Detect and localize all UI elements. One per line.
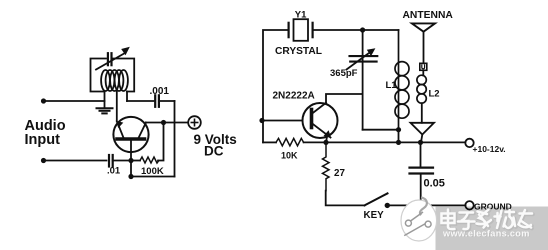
terminal +10-12v bbox=[465, 139, 473, 147]
wire link to L2 bbox=[422, 70, 424, 75]
node audio input bottom terminal bbox=[41, 158, 46, 163]
wire audio input top bbox=[44, 100, 105, 102]
svg-text:365pF: 365pF bbox=[330, 68, 358, 79]
wire 100K left link bbox=[131, 160, 140, 162]
crystal Y1 bbox=[289, 19, 313, 41]
node collector junction bbox=[161, 120, 166, 125]
wire tuning arrow bbox=[96, 53, 125, 70]
wire supply rail bbox=[326, 141, 465, 143]
capacitor .001 bbox=[155, 95, 159, 107]
node L1 bottom junction bbox=[396, 127, 401, 132]
watermark gray panel bbox=[436, 207, 548, 250]
capacitor 0.05 bbox=[410, 142, 434, 205]
svg-text:ANTENNA: ANTENNA bbox=[403, 10, 454, 21]
wire shield left drop to ground bbox=[104, 92, 106, 109]
svg-text:CRYSTAL: CRYSTAL bbox=[275, 46, 322, 57]
svg-text:10K: 10K bbox=[281, 151, 298, 161]
antenna bbox=[412, 23, 435, 63]
node base junction bbox=[128, 158, 133, 163]
resistor 100K bbox=[140, 157, 159, 163]
capacitor 365pF bbox=[350, 56, 378, 62]
node audio input top terminal bbox=[41, 98, 46, 103]
inductor L1 bbox=[395, 30, 409, 130]
switch KEY bbox=[365, 193, 390, 208]
node base lower junction bbox=[128, 174, 133, 179]
wire feedback bottom bbox=[131, 176, 175, 178]
wire triangle to rail bbox=[421, 135, 422, 143]
svg-text:.01: .01 bbox=[107, 166, 121, 177]
svg-text:+10-12v.: +10-12v. bbox=[473, 144, 506, 154]
wire collector Q2 riser bbox=[326, 94, 363, 103]
node base rail junction bbox=[259, 118, 264, 123]
resistor 27 bbox=[323, 142, 330, 190]
wire coil right end down bbox=[126, 92, 128, 102]
svg-text:2N2222A: 2N2222A bbox=[273, 91, 315, 102]
wire 365pF arrow bbox=[347, 52, 372, 70]
wire 365pF top lead bbox=[362, 30, 364, 130]
wire collector to supply bbox=[146, 122, 188, 124]
wire L2 to triangle bbox=[421, 103, 423, 123]
svg-text:0.05: 0.05 bbox=[424, 178, 445, 190]
svg-text:L2: L2 bbox=[429, 88, 440, 99]
svg-text:www.elecfans.com: www.elecfans.com bbox=[442, 229, 530, 239]
node 365pF top junction bbox=[360, 27, 365, 32]
svg-text:Input: Input bbox=[25, 132, 61, 148]
svg-text:L1: L1 bbox=[386, 80, 398, 91]
resistor 10K bbox=[276, 138, 304, 146]
wire .01 to base node bbox=[113, 160, 131, 162]
wire base stub bbox=[130, 161, 132, 177]
svg-text:Y1: Y1 bbox=[295, 9, 307, 20]
wire coil tap to transistor bbox=[116, 91, 118, 122]
wire 365pF bottom lead bbox=[363, 129, 399, 131]
terminal 9V plus bbox=[188, 116, 201, 129]
svg-text:.001: .001 bbox=[150, 86, 170, 97]
watermark logo circle bbox=[401, 197, 437, 241]
wire 27 to key bbox=[326, 191, 365, 206]
svg-text:100K: 100K bbox=[141, 166, 164, 177]
svg-text:27: 27 bbox=[334, 168, 345, 179]
terminal GROUND bbox=[465, 201, 473, 209]
wire feedback vertical bbox=[174, 101, 176, 177]
node antenna rail junction bbox=[418, 140, 423, 145]
ground bbox=[97, 108, 113, 113]
wire L1 bottom to rail bbox=[398, 130, 400, 143]
shield box T1 bbox=[91, 59, 135, 92]
capacitor variable tuning (plates on shield top) bbox=[108, 53, 112, 65]
wire crystal to L1 top bbox=[313, 29, 399, 31]
svg-text:KEY: KEY bbox=[364, 210, 385, 221]
node emitter rail junction bbox=[323, 140, 328, 145]
wire 100K right riser bbox=[158, 123, 164, 161]
wire key to ground terminal bbox=[387, 204, 465, 206]
capacitor .01 bbox=[109, 155, 113, 167]
node L1 rail junction bbox=[396, 140, 401, 145]
inductor L (coil in shield) bbox=[101, 70, 128, 91]
wire base Q2 bbox=[263, 120, 303, 122]
wire .001 to feedback drop bbox=[159, 100, 175, 102]
wire rail 10K to emitter bbox=[304, 141, 326, 143]
wire emitter to rail bbox=[326, 137, 327, 143]
wire rail left link bbox=[263, 141, 276, 143]
svg-text:DC: DC bbox=[204, 144, 224, 159]
wire audio input bottom bbox=[44, 160, 107, 162]
inductor L2 bbox=[417, 75, 426, 103]
transistor Q1 bbox=[113, 117, 148, 161]
connector link box bbox=[420, 63, 427, 70]
ground arrow triangle bbox=[411, 123, 435, 135]
transistor Q2 bbox=[303, 103, 338, 138]
wire crystal left rail bbox=[263, 30, 289, 142]
wire to .001 bbox=[127, 100, 154, 102]
